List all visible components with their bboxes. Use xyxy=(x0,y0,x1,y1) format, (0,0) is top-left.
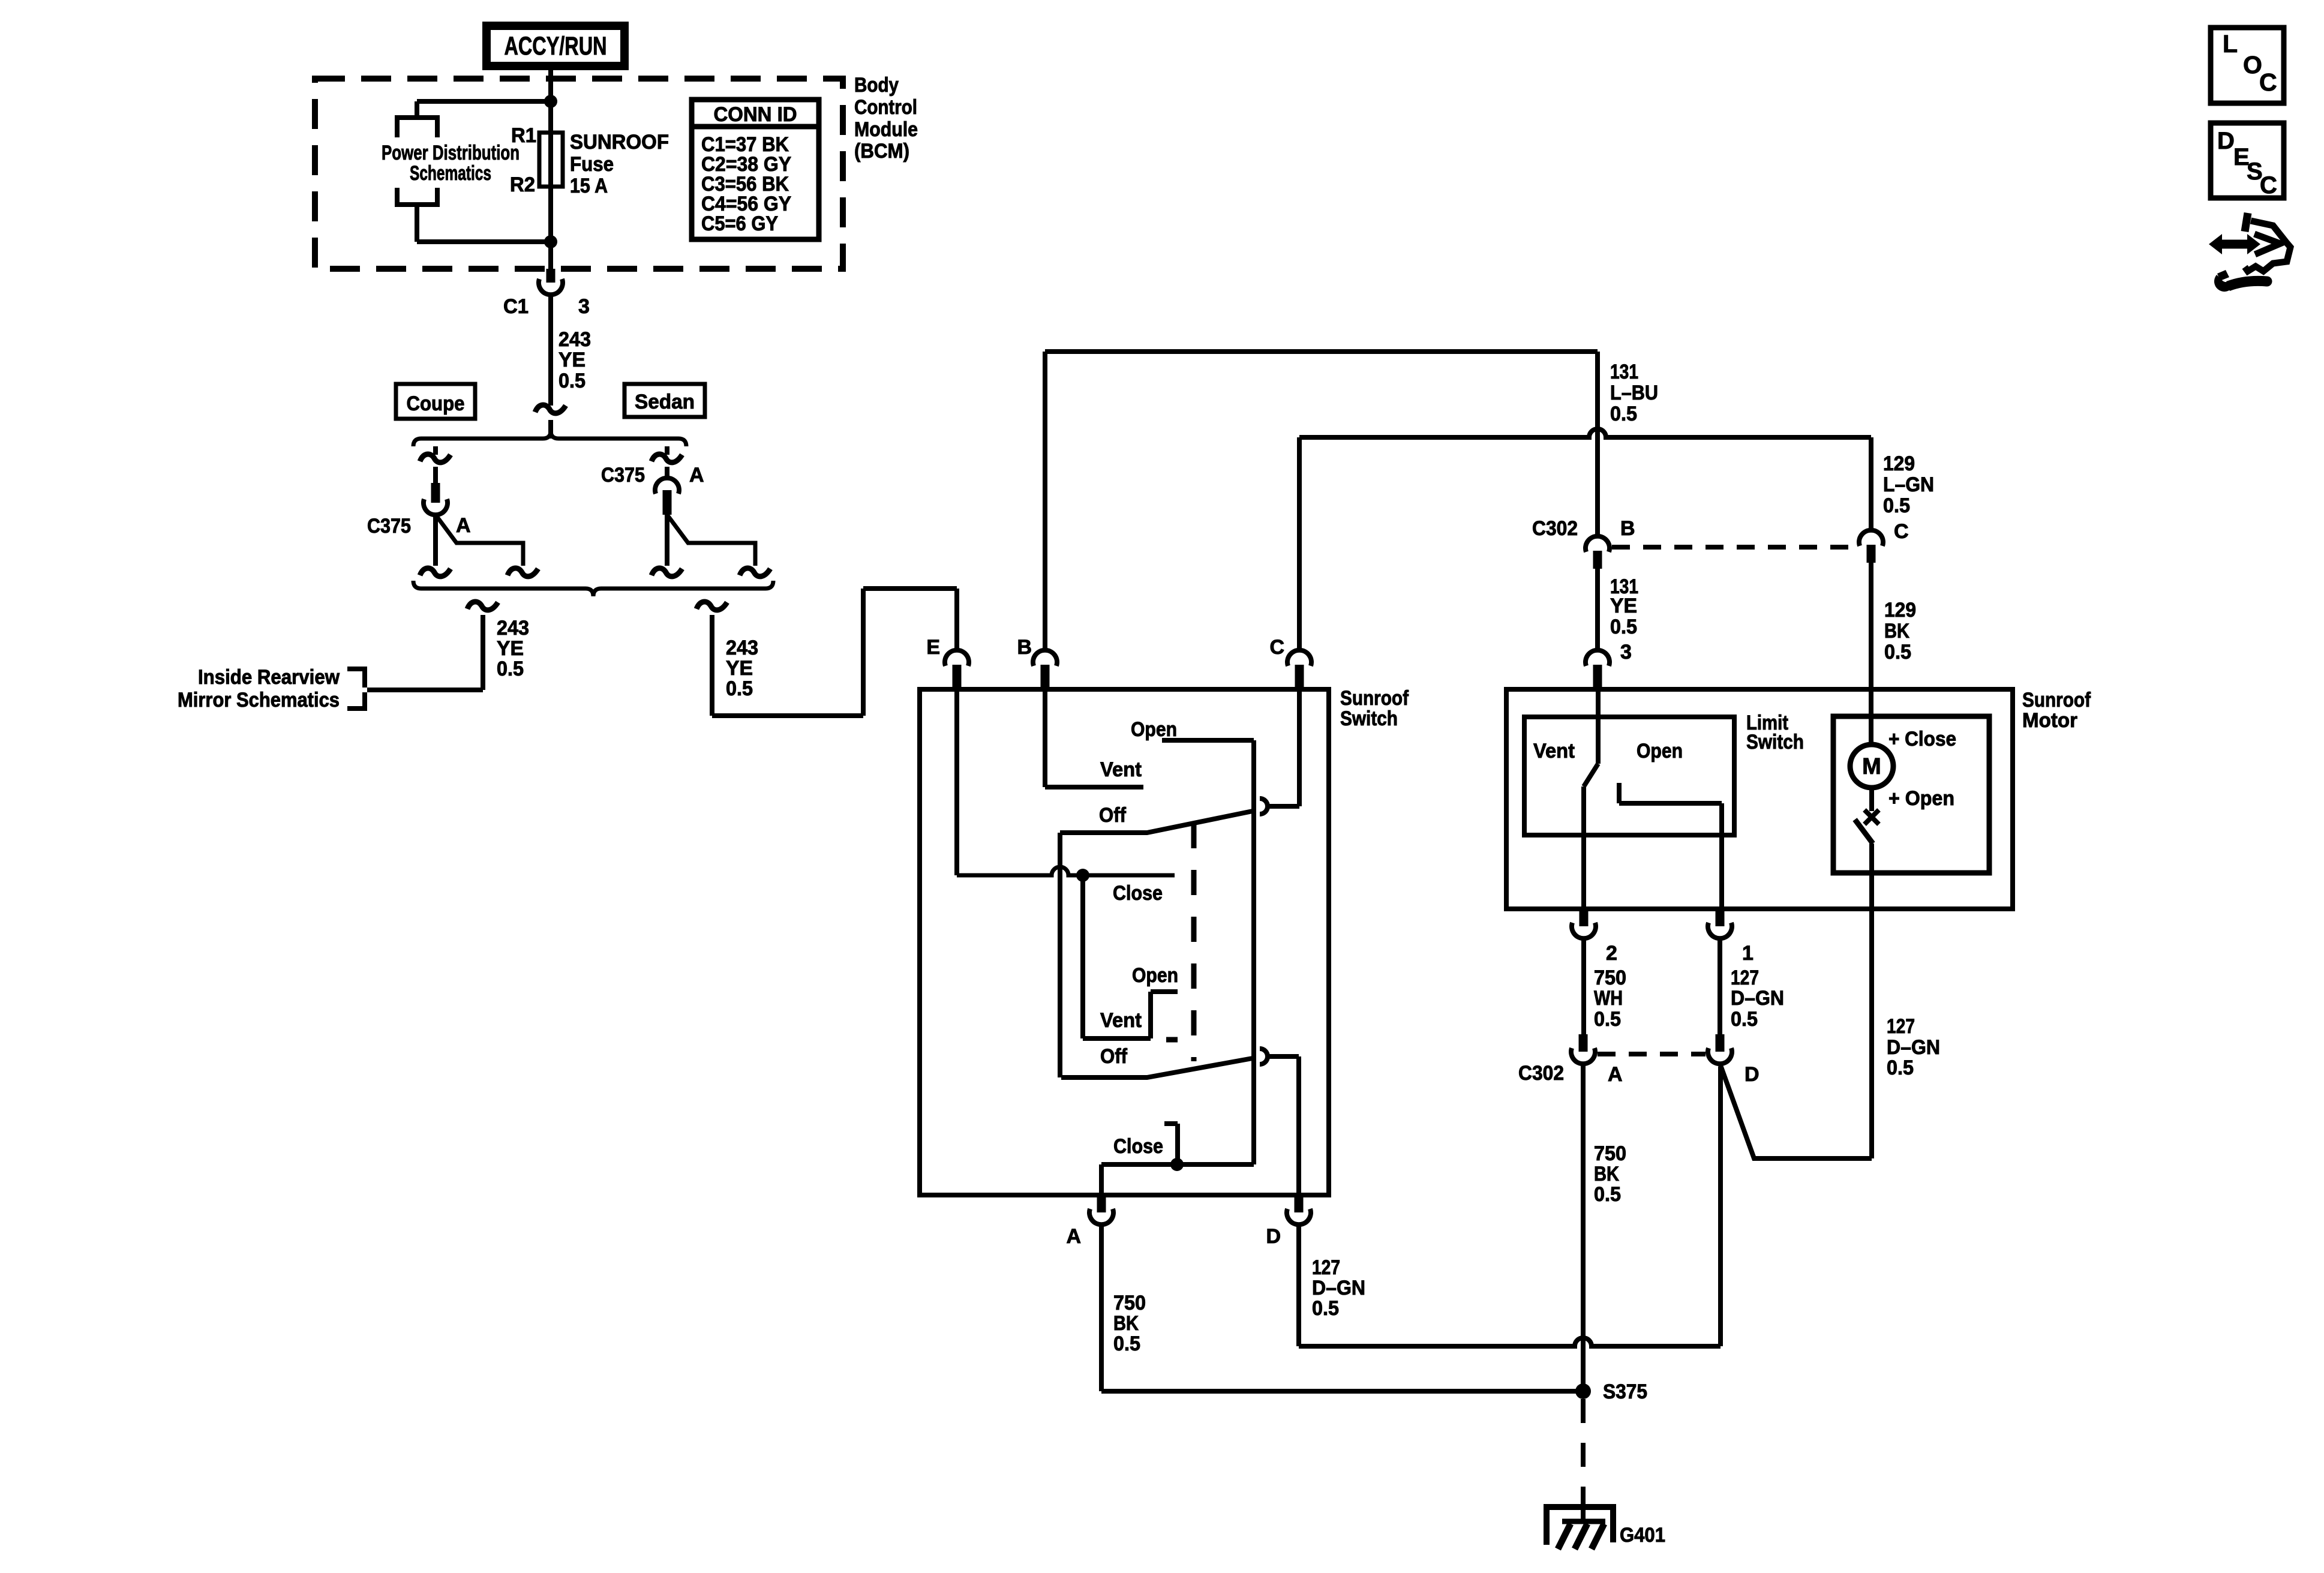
svg-text:243: 243 xyxy=(497,617,529,640)
svg-text:127: 127 xyxy=(1312,1256,1340,1279)
svg-text:Open: Open xyxy=(1132,964,1178,987)
svg-text:129: 129 xyxy=(1884,599,1916,622)
svg-text:BK: BK xyxy=(1594,1163,1619,1185)
svg-text:D–GN: D–GN xyxy=(1887,1036,1940,1059)
svg-text:Switch: Switch xyxy=(1340,707,1398,730)
svg-text:YE: YE xyxy=(559,349,585,371)
svg-text:Sunroof: Sunroof xyxy=(1340,687,1409,710)
svg-text:127: 127 xyxy=(1731,966,1759,989)
svg-text:3: 3 xyxy=(1620,641,1632,664)
svg-text:Off: Off xyxy=(1100,1045,1128,1068)
svg-text:B: B xyxy=(1620,517,1635,540)
svg-text:0.5: 0.5 xyxy=(1594,1183,1621,1206)
svg-text:SUNROOF: SUNROOF xyxy=(570,131,669,154)
svg-text:G401: G401 xyxy=(1620,1524,1665,1547)
svg-text:YE: YE xyxy=(497,637,524,660)
svg-text:243: 243 xyxy=(726,637,758,659)
svg-text:A: A xyxy=(1066,1225,1081,1248)
svg-text:Inside Rearview: Inside Rearview xyxy=(198,666,340,689)
svg-text:D: D xyxy=(2217,128,2235,154)
svg-text:750: 750 xyxy=(1594,966,1626,989)
svg-text:750: 750 xyxy=(1113,1292,1146,1314)
svg-text:1: 1 xyxy=(1742,942,1753,965)
svg-text:C: C xyxy=(2260,172,2277,199)
svg-text:Off: Off xyxy=(1099,804,1127,827)
svg-text:Fuse: Fuse xyxy=(570,153,614,176)
svg-text:131: 131 xyxy=(1610,361,1638,383)
svg-text:D–GN: D–GN xyxy=(1731,987,1784,1010)
svg-text:C302: C302 xyxy=(1518,1062,1564,1085)
svg-text:15 A: 15 A xyxy=(570,175,608,197)
svg-text:+ Close: + Close xyxy=(1888,728,1956,751)
svg-text:C: C xyxy=(1894,520,1909,543)
svg-text:Switch: Switch xyxy=(1746,731,1804,754)
svg-text:C: C xyxy=(1269,636,1284,659)
svg-text:Sedan: Sedan xyxy=(635,391,695,413)
svg-text:A: A xyxy=(689,464,704,487)
svg-text:0.5: 0.5 xyxy=(1610,616,1637,638)
svg-text:WH: WH xyxy=(1594,987,1623,1010)
svg-text:Power Distribution: Power Distribution xyxy=(382,142,520,164)
svg-text:0.5: 0.5 xyxy=(1884,641,1911,664)
svg-text:C375: C375 xyxy=(601,464,645,487)
svg-text:+ Open: + Open xyxy=(1888,787,1954,810)
svg-text:L: L xyxy=(2223,30,2238,58)
svg-text:750: 750 xyxy=(1594,1142,1626,1165)
svg-text:0.5: 0.5 xyxy=(726,677,753,700)
svg-text:E: E xyxy=(926,636,940,659)
svg-text:Vent: Vent xyxy=(1100,758,1142,781)
svg-text:Control: Control xyxy=(854,96,917,119)
svg-text:0.5: 0.5 xyxy=(1610,403,1637,425)
svg-text:Module: Module xyxy=(854,118,918,141)
svg-text:0.5: 0.5 xyxy=(1731,1008,1758,1031)
svg-text:(BCM): (BCM) xyxy=(854,140,909,163)
svg-text:S375: S375 xyxy=(1603,1380,1647,1403)
svg-text:L–GN: L–GN xyxy=(1883,473,1934,496)
svg-text:D–GN: D–GN xyxy=(1312,1277,1365,1299)
svg-text:0.5: 0.5 xyxy=(1113,1332,1140,1355)
svg-text:C5=6 GY: C5=6 GY xyxy=(701,212,778,235)
svg-text:Sunroof: Sunroof xyxy=(2022,689,2091,712)
svg-text:Schematics: Schematics xyxy=(410,162,491,185)
svg-text:B: B xyxy=(1017,636,1032,659)
svg-text:YE: YE xyxy=(1610,595,1637,617)
svg-text:127: 127 xyxy=(1887,1015,1915,1038)
svg-text:Open: Open xyxy=(1637,740,1683,763)
svg-text:0.5: 0.5 xyxy=(1312,1297,1339,1320)
svg-text:2: 2 xyxy=(1606,942,1617,965)
svg-text:Mirror Schematics: Mirror Schematics xyxy=(178,689,340,712)
svg-text:C302: C302 xyxy=(1532,517,1578,540)
svg-text:0.5: 0.5 xyxy=(1887,1056,1914,1079)
svg-text:129: 129 xyxy=(1883,452,1915,475)
svg-text:A: A xyxy=(1608,1063,1623,1086)
svg-text:Motor: Motor xyxy=(2022,709,2077,732)
svg-text:Close: Close xyxy=(1113,882,1163,905)
svg-text:3: 3 xyxy=(578,295,590,318)
svg-text:YE: YE xyxy=(726,657,753,680)
svg-text:R2: R2 xyxy=(510,173,535,196)
svg-text:D: D xyxy=(1266,1225,1281,1248)
svg-text:CONN ID: CONN ID xyxy=(714,103,797,126)
svg-text:Vent: Vent xyxy=(1100,1009,1142,1032)
svg-text:C: C xyxy=(2259,68,2277,96)
svg-text:243: 243 xyxy=(559,328,591,351)
svg-text:Body: Body xyxy=(854,74,899,97)
svg-text:Close: Close xyxy=(1113,1135,1163,1158)
svg-text:BK: BK xyxy=(1113,1312,1139,1335)
svg-text:R1: R1 xyxy=(511,124,536,147)
svg-text:Coupe: Coupe xyxy=(407,392,465,415)
svg-text:ACCY/RUN: ACCY/RUN xyxy=(505,32,607,61)
svg-text:C1: C1 xyxy=(503,295,529,318)
svg-text:BK: BK xyxy=(1884,620,1909,643)
svg-text:0.5: 0.5 xyxy=(559,370,585,392)
svg-text:D: D xyxy=(1744,1063,1759,1086)
svg-text:M: M xyxy=(1862,754,1881,779)
svg-text:L–BU: L–BU xyxy=(1610,382,1658,404)
svg-text:C375: C375 xyxy=(367,515,411,538)
svg-text:0.5: 0.5 xyxy=(497,658,524,680)
svg-text:A: A xyxy=(456,514,471,537)
svg-text:Vent: Vent xyxy=(1533,740,1575,763)
svg-text:0.5: 0.5 xyxy=(1594,1008,1621,1031)
svg-text:Open: Open xyxy=(1131,718,1177,741)
svg-text:0.5: 0.5 xyxy=(1883,494,1910,517)
